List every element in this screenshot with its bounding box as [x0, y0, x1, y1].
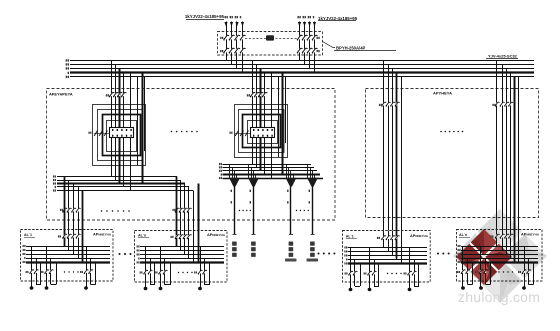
label QA2 [220, 50, 223, 52]
breaker QF feeder drop to ALn [176, 209, 178, 212]
leader line to ATS label [323, 42, 336, 48]
breaker floor panel AL4 branch 3 [524, 270, 526, 273]
breaker QF floor panel AL1 incoming [64, 235, 66, 238]
floor panel AL1 incoming wires [65, 230, 83, 263]
label QF floor panel ALn main [170, 236, 173, 238]
label branch breaker 1 [345, 272, 348, 274]
label QF riser AL3 [379, 104, 382, 106]
ATS internal wires left group [227, 32, 243, 73]
svg-text:APEYHPEYA: APEYHPEYA [49, 91, 73, 96]
phase labels right feeder [298, 16, 315, 18]
ATS interlock actuator blob [266, 35, 274, 40]
floor panel AL4 branch circuit 2 wires [481, 246, 491, 288]
svg-text:BPYH-250A/4P: BPYH-250A/4P [336, 45, 366, 50]
sub bus A labels [53, 175, 56, 177]
floor panel ALn branch 2 load blob [159, 287, 163, 290]
label W feeder 3 fan power [287, 190, 288, 192]
floor panel ALn bus labels [137, 245, 140, 247]
breaker floor panel AL4 branch 2 [480, 270, 482, 273]
label branch breaker 2 [364, 272, 367, 274]
watermark zhulong big gray pinwheel [453, 209, 547, 303]
breaker floor panel AL1 branch 1 [31, 270, 33, 273]
label branch breaker 1 [457, 271, 460, 273]
heavy N riser at unit 2 [282, 73, 284, 175]
label branch breaker 3 [194, 271, 197, 273]
feeder 4 fan power tap wires [308, 164, 318, 179]
label TA metering unit 2 [229, 132, 232, 134]
breaker QF floor panel ALn incoming [176, 235, 178, 238]
feeder 3 fan power tap wires [287, 164, 296, 179]
label W feeder 1 lift power [231, 190, 232, 192]
floor panel AL3 branch circuit 1 wires [351, 248, 361, 290]
feeder 3 fan power cable funnel [286, 178, 297, 187]
ellipsis dots floor panel AL1 branches [64, 271, 65, 272]
label QA4 [317, 50, 320, 52]
breaker QF1 left row1 [226, 36, 228, 40]
metering unit 1 feeder taps from main bus [112, 61, 124, 166]
label TA metering unit 1 [88, 132, 91, 134]
label branch breaker 2 [41, 271, 44, 273]
floor panel ALn branch 1 load blob [144, 287, 148, 290]
svg-text:AL´n: AL´n [459, 233, 467, 237]
floor panel AL4 bus labels [458, 245, 461, 247]
floor panel AL3 branch 3 load blob [408, 288, 412, 291]
left distribution panel dashed enclosure [47, 89, 336, 221]
ellipsis dots feeder group 2 [296, 210, 297, 211]
label QF floor panel AL1 main [58, 235, 61, 237]
floor panel ALn dashed enclosure [135, 231, 228, 283]
svg-text:AL´1: AL´1 [24, 233, 32, 237]
ellipsis dots between ALn AL3 [318, 253, 320, 255]
floor panel ALn branch circuit 1 wires [146, 247, 156, 289]
breaker QF riser AL3 [383, 103, 385, 106]
floor panel AL1 internal busbar [26, 246, 110, 248]
svg-text:1kYJV22-4x185+95: 1kYJV22-4x185+95 [318, 16, 358, 21]
floor panel AL4 branch 3 load blob [522, 286, 526, 289]
CT isolating switch metering unit 2 [235, 131, 251, 137]
label branch breaker 3 [518, 271, 521, 273]
breaker floor panel AL3 branch 3 [409, 272, 411, 275]
label fan power 2 vertical text [310, 242, 315, 257]
breaker floor panel AL3 branch 2 [369, 272, 371, 275]
floor panel AL4 branch circuit 3 wires [525, 246, 534, 288]
floor panel AL1 bus labels [23, 245, 26, 247]
breaker QF riser AL4 [496, 103, 498, 106]
ellipsis dots floor panel AL3 branches [387, 273, 388, 274]
breaker QF metering unit 1 incoming [111, 93, 113, 96]
floor panel AL4 incoming wires [497, 230, 519, 263]
breaker floor panel ALn branch 1 [145, 271, 147, 274]
main distribution busbar L1 L2 L3 N PE [70, 60, 534, 62]
floor panel AL1 branch circuit 2 wires [47, 246, 57, 288]
riser wires to AL4 [497, 61, 519, 231]
breaker QF4 right row2 [299, 49, 301, 53]
svg-text:APNNEYHA: APNNEYHA [93, 233, 112, 237]
ellipsis dots between AL3 AL4 [437, 253, 439, 255]
feeder 4 fan power cable funnel [307, 178, 318, 187]
metering unit 2 feeder taps from main bus [253, 61, 265, 158]
floor panel AL3 branch circuit 2 wires [370, 248, 380, 290]
label QA3 [317, 37, 320, 39]
floor panel AL1 branch 1 load blob [30, 286, 34, 289]
feeder 2 lift power cable funnel [248, 178, 259, 187]
floor panel AL3 branch 1 load blob [349, 288, 353, 291]
sub busbar B under metering unit 2 [223, 164, 312, 166]
feeder 2 lift power outgoing cable [253, 187, 255, 235]
floor panel AL1 branch 3 load blob [84, 286, 88, 289]
floor panel AL4 internal busbar [461, 246, 538, 248]
ellipsis dots feeder group 1 [239, 210, 240, 211]
label QA1 [220, 37, 223, 39]
floor panel AL1 dashed enclosure [21, 230, 114, 282]
wires metering unit 1 down to sub bus A [112, 164, 131, 191]
riser wires to AL3 [384, 61, 402, 231]
svg-text:APNNEYHA: APNNEYHA [521, 233, 540, 237]
feeder 3 fan power outgoing cable [290, 187, 292, 235]
label QF riser AL4 [492, 104, 495, 106]
feeder drop to AL1 wires [65, 177, 83, 231]
label branch breaker 3 [404, 272, 407, 274]
metering unit 1 CT wiring loops [93, 105, 146, 166]
breaker QF3 right row1 [299, 36, 301, 40]
metering unit 2 CT wiring loops [235, 105, 288, 158]
svg-text:AL´1: AL´1 [346, 234, 354, 238]
ellipsis dots floor panel ALn branches [178, 272, 179, 273]
floor panel AL3 dashed enclosure [343, 231, 431, 283]
ellipsis dots between AL1 ALn [119, 253, 121, 255]
breaker floor panel AL1 branch 3 [86, 270, 88, 273]
svg-text:APNNEYHA: APNNEYHA [410, 234, 429, 238]
breaker floor panel AL1 branch 2 [46, 270, 48, 273]
floor panel AL4 dashed enclosure [457, 230, 543, 282]
floor panel ALn branch 3 load blob [198, 287, 202, 290]
incoming supply wires right group [300, 22, 315, 33]
watermark zhulong red pinwheel logo [456, 229, 512, 285]
breaker floor panel ALn branch 2 [160, 271, 162, 274]
feeder 2 lift power tap wires [249, 164, 259, 179]
floor panel AL1 branch circuit 3 wires [87, 246, 96, 288]
feeder 1 lift power outgoing cable [234, 187, 236, 235]
incoming supply wires left group [227, 22, 243, 33]
breaker QF metering unit 2 incoming [252, 93, 254, 96]
supply arrows right [298, 22, 316, 27]
floor panel AL1 branch circuit 1 wires [32, 246, 42, 288]
feeder 1 lift power tap wires [230, 164, 240, 179]
label lift power 1 vertical text [232, 242, 237, 257]
metering unit 1 bypass N/PE wires [131, 73, 145, 165]
breaker QF floor panel AL4 incoming [496, 235, 498, 238]
wires metering unit 2 down to sub bus B [253, 156, 272, 178]
label branch breaker 2 [475, 271, 478, 273]
label QF floor panel AL4 main [490, 235, 493, 237]
sub busbar A under metering unit 1 [57, 176, 177, 178]
label W2 feeder 4 fan power [309, 201, 310, 203]
floor panel AL3 branch circuit 3 wires [410, 248, 420, 290]
label W2 feeder 3 fan power [287, 201, 288, 203]
floor panel AL4 branch 2 load blob [479, 286, 483, 289]
main bus conductor labels [66, 59, 69, 61]
label fan power 1 vertical text [289, 242, 294, 257]
label QF floor panel AL3 main [377, 237, 380, 239]
floor panel AL4 branch 1 load blob [461, 286, 465, 289]
breaker floor panel AL4 branch 1 [462, 270, 464, 273]
floor panel ALn incoming wires [177, 230, 199, 263]
svg-text:AL´n: AL´n [138, 233, 146, 237]
phase labels left feeder [225, 16, 242, 18]
breaker QF feeder drop to AL1 [64, 209, 66, 212]
ellipsis dots sub bus A feeders [101, 210, 103, 212]
svg-text:APYHEYA: APYHEYA [433, 91, 452, 96]
breaker floor panel ALn branch 3 [200, 271, 202, 274]
svg-text:YJV-4x25-SC32: YJV-4x25-SC32 [488, 54, 518, 59]
heavy PE riser to AL1 [82, 191, 84, 263]
ATS internal wires right group [300, 32, 315, 73]
label W feeder 2 lift power [250, 190, 251, 192]
label branch breaker 1 [26, 271, 29, 273]
floor panel AL1 branch 2 load blob [45, 286, 49, 289]
breaker floor panel AL3 branch 1 [350, 272, 352, 275]
svg-text:zhulong.com: zhulong.com [458, 289, 540, 305]
label W2 feeder 1 lift power [231, 201, 232, 203]
label branch breaker 3 [80, 271, 83, 273]
heavy riser to AL3 [396, 73, 398, 259]
label QF metering unit 1 [106, 94, 109, 96]
heavy PE riser to ALn [198, 184, 200, 231]
sub bus B labels [219, 163, 222, 165]
feeder drop to ALn wires [177, 177, 194, 231]
label QF metering unit 2 [247, 94, 250, 96]
svg-text:APNNEYHA: APNNEYHA [207, 233, 226, 237]
floor panel ALn branch circuit 2 wires [161, 247, 171, 289]
floor panel AL3 bus labels [344, 246, 347, 248]
floor panel ALn branch circuit 3 wires [201, 247, 210, 289]
heavy N riser at unit 1 [142, 73, 144, 184]
label W2 feeder 2 lift power [250, 201, 251, 203]
CT isolating switch metering unit 1 [94, 131, 110, 137]
ellipsis dots right shaft [440, 131, 442, 133]
ellipsis dots floor panel AL4 branches [498, 271, 499, 272]
svg-text:1kYJV22-4x185+95: 1kYJV22-4x185+95 [185, 14, 225, 19]
label branch breaker 1 [140, 271, 143, 273]
heavy L1 riser to AL1 [64, 177, 66, 247]
feeder 4 fan power outgoing cable [312, 187, 314, 235]
ATS enclosure dashed box [218, 32, 323, 56]
breaker QF floor panel AL3 incoming [383, 236, 385, 239]
right riser shaft dashed enclosure [366, 89, 539, 218]
kWh meter metering unit 1 [110, 128, 134, 138]
label W feeder 4 fan power [309, 190, 310, 192]
ellipsis dots between metering units [171, 131, 173, 133]
floor panel AL4 branch circuit 1 wires [463, 246, 473, 288]
floor panel AL3 internal busbar [348, 247, 427, 249]
breaker QF2 left row2 [226, 49, 228, 53]
label QF feeder drop to ALn [172, 209, 175, 211]
underline cable label left [186, 19, 224, 21]
supply arrows left [224, 22, 244, 27]
floor panel AL3 incoming wires [384, 231, 402, 264]
underline ATS label [334, 50, 396, 52]
feeder 1 lift power cable funnel [229, 178, 240, 187]
label branch breaker 2 [155, 271, 158, 273]
floor panel AL3 branch 2 load blob [368, 288, 372, 291]
ATS mechanical interlock dashed link [245, 38, 297, 40]
floor panel ALn internal busbar [140, 246, 224, 248]
label QF feeder drop to AL1 [60, 209, 63, 211]
underline riser label [486, 58, 518, 60]
heavy L1 riser to ALn [176, 177, 178, 247]
label lift power 2 vertical text [251, 242, 256, 257]
underline cable label right [318, 20, 356, 22]
kWh meter metering unit 2 [251, 128, 275, 138]
metering unit 2 bypass N/PE wires [272, 73, 286, 157]
